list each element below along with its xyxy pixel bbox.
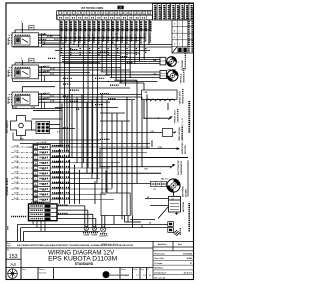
svg-text:0.5 HG 15: 0.5 HG 15 — [116, 32, 118, 42]
company logo emblem — [8, 269, 18, 279]
svg-text:AB 1: AB 1 — [42, 173, 46, 176]
step wires to starter and glow — [114, 79, 137, 81]
wires lower mesh — [33, 109, 62, 111]
wire label pin 13 — [117, 21, 119, 31]
arrow oil pressure — [143, 100, 145, 119]
svg-text:1:1: 1:1 — [126, 275, 129, 277]
battery B1 — [169, 197, 181, 213]
arrow fuel solenoid — [100, 166, 172, 168]
svg-text:TERMINAL BOARD: TERMINAL BOARD — [6, 177, 9, 196]
wire label pin 20 — [149, 21, 151, 31]
svg-text:5: 5 — [78, 13, 79, 15]
battery B1 wires — [145, 198, 169, 200]
svg-text:1N5: 1N5 — [153, 74, 156, 76]
svg-text:0.5 C 15: 0.5 C 15 — [121, 35, 123, 43]
wire from J1 pin 10 — [101, 20, 103, 72]
wire from J1 pin 1 — [59, 20, 61, 147]
svg-text:87: 87 — [190, 263, 192, 265]
svg-text:1 N5: 1 N5 — [13, 107, 17, 109]
europequipment logo — [103, 271, 110, 278]
svg-text:RELAY: RELAY — [7, 70, 10, 77]
wire label pin 9 — [98, 21, 100, 31]
wire label pin 5 — [79, 21, 81, 31]
svg-text:0.5 A 15: 0.5 A 15 — [129, 34, 132, 42]
alternator G1 — [167, 57, 177, 67]
svg-text:10: 10 — [35, 195, 37, 197]
wire label pin 1 — [60, 21, 62, 31]
wires relay K2 to right — [39, 66, 121, 68]
svg-text:Sost. il dis.:: Sost. il dis.: — [155, 257, 165, 260]
wire from J1 pin 7 — [87, 20, 89, 168]
relay K1 link verticals — [41, 35, 43, 47]
svg-text:AVVIAM.: AVVIAM. — [185, 188, 188, 197]
terminal X1 pin 11 — [34, 198, 38, 202]
indicator lamp H2 — [92, 214, 94, 226]
svg-text:1: 1 — [59, 13, 60, 15]
terminal X1 pin 4 — [34, 161, 38, 165]
wires to alternator connector — [62, 57, 160, 59]
svg-text:1.5 N: 1.5 N — [14, 177, 19, 179]
svg-text:WIRING DIAGRAM 12V: WIRING DIAGRAM 12V — [48, 250, 114, 256]
svg-text:5: 5 — [178, 62, 179, 64]
wires key switch to right — [32, 118, 63, 120]
wires relay K1 to right — [39, 34, 61, 36]
wire bus under relay K3 — [13, 108, 63, 110]
drawing border frame — [6, 3, 194, 280]
legend diagonal mark and dark cells — [172, 47, 177, 53]
svg-text:0.5 G 15: 0.5 G 15 — [69, 36, 71, 45]
svg-text:1 N5: 1 N5 — [158, 147, 162, 149]
starter motor M1 connector — [151, 181, 167, 186]
terminal X1 pin 6 — [34, 172, 38, 176]
wire from J1 pin 8 — [92, 20, 94, 173]
wire from J1 pin 20 — [148, 20, 150, 45]
svg-text:1.95: 1.95 — [144, 169, 148, 171]
svg-text:1 15: 1 15 — [57, 132, 61, 134]
terminal X1 pin 7 — [34, 177, 38, 181]
svg-text:legge: legge — [7, 245, 11, 247]
svg-text:1.5 N: 1.5 N — [14, 145, 19, 147]
wire from J1 pin 9 — [96, 20, 98, 179]
svg-text:MOTORE: MOTORE — [185, 145, 187, 154]
connector X2 pin boxes — [45, 205, 51, 208]
terminal X1 pin 8 — [34, 182, 38, 186]
svg-text:0.5 M 15: 0.5 M 15 — [88, 33, 90, 42]
extra mesh lines — [55, 107, 118, 109]
svg-text:1 N5: 1 N5 — [144, 92, 148, 94]
svg-text:1: 1 — [35, 147, 36, 149]
svg-text:16: 16 — [129, 13, 131, 15]
svg-text:AB 1: AB 1 — [42, 146, 46, 149]
svg-text:AB 1: AB 1 — [42, 183, 46, 186]
wire label pin 6 — [84, 21, 86, 31]
wires right of X1 with labels — [50, 146, 150, 148]
connector J1 body — [57, 10, 153, 20]
wire from J1 pin 2 — [64, 20, 66, 153]
wires panel to right — [124, 216, 126, 223]
svg-text:7: 7 — [87, 13, 88, 15]
svg-text:20: 20 — [148, 13, 150, 15]
svg-text:12: 12 — [110, 13, 112, 15]
svg-text:Emesso:: Emesso: — [39, 269, 46, 271]
svg-text:19: 19 — [143, 13, 145, 15]
svg-text:Tav.: Tav. — [7, 250, 10, 252]
wire label pin 19 — [145, 21, 147, 31]
svg-text:1.5: 1.5 — [153, 189, 156, 191]
svg-text:25: 25 — [149, 223, 151, 225]
svg-text:ARRESTO: ARRESTO — [181, 144, 184, 154]
wires connector X2 to right — [57, 205, 85, 207]
svg-text:PRESS. OLIO: PRESS. OLIO — [175, 110, 177, 123]
svg-text:N.8/99: N.8/99 — [187, 258, 192, 260]
wire label pin 2 — [65, 21, 67, 31]
glow plugs R1 box — [142, 90, 178, 100]
svg-text:CANDELETTE: CANDELETTE — [179, 90, 182, 104]
revision table — [152, 241, 154, 279]
alternator G1 connector — [160, 57, 166, 65]
X2 bottom stubs — [32, 221, 34, 225]
svg-text:RELAY: RELAY — [7, 38, 10, 45]
svg-text:0.5 C: 0.5 C — [50, 95, 55, 97]
wire from J1 pin 13 — [115, 20, 117, 80]
svg-text:TEMP. ACQUA: TEMP. ACQUA — [178, 127, 181, 141]
terminal X1 pin 3 — [34, 156, 38, 160]
svg-text:Dis. sost. da:: Dis. sost. da: — [155, 276, 167, 279]
wire inline labels (smudges) — [63, 77, 72, 79]
svg-text:0.5 M: 0.5 M — [50, 68, 55, 70]
wire label pin 16 — [131, 21, 133, 31]
svg-text:0.5 RG 15: 0.5 RG 15 — [125, 34, 127, 44]
terminal X1 pin 1 — [34, 145, 38, 149]
wire label pin 7 — [89, 21, 91, 31]
svg-text:0.5 G: 0.5 G — [54, 39, 59, 41]
wire label pin 15 — [126, 21, 128, 31]
junction dots — [69, 46, 70, 47]
svg-text:0.5 RV 15: 0.5 RV 15 — [149, 33, 151, 43]
wire X1 row3 to battery — [187, 160, 189, 196]
svg-text:0.5 R 15: 0.5 R 15 — [65, 35, 67, 43]
title block bottom row cells — [20, 268, 22, 280]
legend table header row — [153, 4, 194, 20]
svg-text:0.5 N 15: 0.5 N 15 — [60, 34, 62, 42]
svg-text:4 70: 4 70 — [20, 137, 24, 140]
svg-text:BATTERIA: BATTERIA — [182, 201, 185, 212]
wire from J1 pin 12 — [110, 20, 112, 78]
wire bus under relay K1 — [13, 46, 172, 48]
svg-text:21/07/2004: 21/07/2004 — [183, 252, 192, 255]
svg-text:12V3W: 12V3W — [83, 234, 89, 236]
svg-text:AVVIAMENTO: AVVIAMENTO — [191, 6, 194, 19]
svg-text:0.5 GR 15: 0.5 GR 15 — [135, 33, 137, 43]
svg-text:1.5 N: 1.5 N — [14, 193, 19, 195]
label TAV left of X2 — [11, 216, 27, 218]
svg-text:AB 1: AB 1 — [42, 162, 46, 165]
vertical wires lower area — [61, 104, 63, 148]
svg-text:1.5 N: 1.5 N — [14, 161, 19, 163]
svg-text:Fog.: Fog. — [141, 269, 145, 271]
arrow engine stop — [100, 148, 179, 150]
wire label pin 18 — [140, 21, 142, 31]
svg-text:0.5 S 15: 0.5 S 15 — [107, 35, 109, 43]
motor M2 connector — [160, 71, 167, 79]
svg-text:11: 11 — [106, 13, 108, 15]
wire from J1 pin 15 — [124, 20, 126, 86]
svg-text:9: 9 — [35, 189, 36, 191]
relay K1 box — [12, 33, 39, 47]
svg-text:0.5 A: 0.5 A — [50, 100, 55, 103]
connector J1 pin boxes with numbers — [58, 11, 61, 14]
wire label pin 11 — [107, 21, 109, 31]
vertical links right of X1 — [99, 150, 101, 167]
vertical wires right of X1 down to X2 area — [59, 150, 61, 204]
svg-text:15: 15 — [124, 13, 126, 15]
svg-text:1.5 N: 1.5 N — [14, 156, 19, 158]
svg-text:0.5 RN: 0.5 RN — [47, 36, 53, 38]
svg-text:CARBURANTE: CARBURANTE — [180, 160, 183, 175]
svg-text:1:1: 1:1 — [136, 275, 139, 277]
svg-text:25: 25 — [147, 197, 149, 199]
starter motor M1 wire — [60, 183, 151, 185]
wire label pin 8 — [93, 21, 95, 31]
battery B1 plus terminal — [175, 212, 178, 214]
starter motor M1 — [167, 179, 180, 192]
wire from J1 pin 11 — [106, 20, 108, 75]
svg-text:AB 1: AB 1 — [42, 157, 46, 160]
wire label pin 17 — [135, 21, 137, 31]
svg-text:SPIE: SPIE — [8, 225, 10, 230]
svg-text:CLACSON: CLACSON — [99, 235, 108, 238]
key switch S1 cross-shaped body — [11, 116, 32, 136]
svg-text:AB 1: AB 1 — [42, 152, 46, 155]
relay K1 terminal stub and label 6 — [21, 23, 23, 33]
relay K2 link verticals — [41, 67, 43, 81]
svg-text:STANDARD: STANDARD — [75, 262, 94, 266]
svg-text:Modifiche: Modifiche — [158, 244, 166, 246]
svg-text:8: 8 — [35, 184, 36, 186]
svg-text:A4: A4 — [11, 262, 17, 267]
svg-text:10: 10 — [101, 13, 103, 15]
water temp sender box — [100, 132, 162, 134]
motor M2 — [167, 70, 178, 81]
svg-text:6: 6 — [35, 174, 36, 176]
svg-text:0.5 L 15: 0.5 L 15 — [102, 34, 104, 42]
svg-text:AB 1: AB 1 — [42, 199, 46, 202]
svg-text:0.5 B 15: 0.5 B 15 — [79, 35, 81, 43]
legend sub-table — [172, 20, 194, 53]
svg-text:Visto:: Visto: — [22, 268, 27, 271]
svg-text:11: 11 — [35, 200, 37, 202]
svg-text:1.15: 1.15 — [150, 131, 154, 133]
wire under key switch — [13, 139, 100, 141]
svg-text:1N5: 1N5 — [153, 60, 156, 62]
connector X2 body — [29, 204, 58, 221]
terminal X1 pin 9 — [34, 187, 38, 191]
relay K2 terminal stub — [21, 60, 23, 65]
svg-text:KEY SWITCH: KEY SWITCH — [7, 120, 9, 133]
wire from J1 pin 16 — [129, 20, 131, 78]
svg-text:ELETTROSTOP: ELETTROSTOP — [178, 160, 180, 175]
svg-text:N. lucido:: N. lucido: — [155, 263, 164, 265]
svg-text:12V3W: 12V3W — [91, 234, 97, 236]
svg-text:19-07-04: 19-07-04 — [39, 273, 46, 275]
wire from J1 pin 14 — [120, 20, 122, 83]
terminal X1 pin 10 — [34, 193, 38, 197]
svg-text:04: 04 — [149, 275, 151, 277]
svg-text:8: 8 — [92, 13, 93, 15]
svg-text:AB 1: AB 1 — [42, 194, 46, 197]
wire label pin 14 — [121, 21, 123, 31]
terminal X1 pin 5 — [34, 166, 38, 170]
svg-text:EPS_KUBOTA_D1103M_12_60: EPS_KUBOTA_D1103M_12_60 — [181, 118, 184, 145]
svg-text:5: 5 — [35, 168, 36, 170]
lower right margin vertical text — [188, 203, 190, 232]
wire label pin 3 — [70, 21, 72, 31]
relay K3 terminal stub — [21, 87, 23, 92]
svg-text:AB 1: AB 1 — [42, 188, 46, 191]
svg-text:0.5 AB: 0.5 AB — [44, 70, 50, 73]
svg-text:1.5 N: 1.5 N — [14, 182, 19, 184]
wire from J1 pin 19 — [143, 20, 145, 59]
svg-text:1.5 N: 1.5 N — [14, 166, 19, 168]
svg-text:1.5 N: 1.5 N — [14, 187, 19, 189]
wire from J1 pin 4 — [73, 20, 75, 45]
svg-text:25: 25 — [141, 226, 143, 228]
wire key switch down — [20, 136, 22, 141]
svg-text:JST TOYODA CONN.: JST TOYODA CONN. — [81, 7, 104, 10]
glow plug elements — [146, 99, 174, 101]
svg-text:GL.N 12.1: GL.N 12.1 — [184, 273, 192, 275]
connector J1 lower cells — [56, 15, 58, 20]
svg-text:1 N5: 1 N5 — [31, 107, 35, 109]
svg-text:0.5 AB 0.5: 0.5 AB 0.5 — [53, 145, 62, 148]
wire bus middle rows — [55, 50, 150, 52]
svg-text:3: 3 — [35, 158, 36, 160]
glow plugs wire down — [167, 103, 169, 110]
svg-text:0.5 V 15: 0.5 V 15 — [111, 36, 113, 44]
terminal X1 pin 2 — [34, 151, 38, 155]
svg-text:N.B. PRIMA DI EFFETTUARE QUALS: N.B. PRIMA DI EFFETTUARE QUALSIASI INTER… — [17, 244, 133, 247]
svg-text:1.5 N: 1.5 N — [14, 151, 19, 153]
wires relay K3 to right — [39, 93, 142, 95]
svg-text:1.5 C: 1.5 C — [28, 147, 33, 149]
battery B1 plates — [170, 203, 179, 205]
svg-text:AB 1: AB 1 — [42, 167, 46, 170]
svg-text:RELAY: RELAY — [7, 97, 10, 104]
wires below X2 turning down — [18, 224, 168, 226]
svg-text:1/1: 1/1 — [143, 275, 146, 277]
wire label pin 4 — [75, 21, 77, 31]
terminal board X1 body — [33, 144, 50, 202]
title block left column — [20, 248, 22, 280]
connector X2 header label — [31, 202, 44, 204]
wire from J1 pin 3 — [68, 20, 70, 158]
svg-text:14: 14 — [120, 13, 122, 15]
wire from J1 pin 18 — [139, 20, 141, 62]
svg-text:Misura: Misura — [121, 269, 126, 271]
svg-text:18: 18 — [138, 13, 140, 15]
wire bus under relay K2 — [13, 80, 158, 82]
svg-text:17: 17 — [134, 13, 136, 15]
svg-text:7: 7 — [35, 179, 36, 181]
svg-text:VENTOLA: VENTOLA — [180, 73, 183, 83]
svg-text:Modifiche:: Modifiche: — [155, 268, 164, 270]
svg-text:TAV. 1.5: TAV. 1.5 — [161, 178, 168, 181]
svg-text:1.5 N: 1.5 N — [14, 198, 19, 200]
wire from J1 pin 17 — [134, 20, 136, 64]
svg-text:9: 9 — [97, 13, 98, 15]
indicator lamp H1 — [84, 206, 86, 227]
svg-text:4: 4 — [73, 13, 74, 15]
notes row line — [6, 240, 194, 242]
svg-text:MASSA: MASSA — [179, 227, 182, 235]
wires to motor M2 connector — [100, 71, 160, 73]
key switch S1 connector face — [36, 122, 50, 134]
svg-text:Revisione/e:: Revisione/e: — [155, 253, 166, 255]
svg-text:AB 1: AB 1 — [42, 178, 46, 181]
wire label pin 10 — [103, 21, 105, 31]
wires middle right — [60, 87, 130, 89]
relay K1 stub tag box — [29, 25, 34, 30]
svg-text:0.5 AB 15: 0.5 AB 15 — [92, 33, 95, 43]
svg-text:MOTORINO: MOTORINO — [183, 186, 185, 197]
svg-text:13: 13 — [115, 13, 117, 15]
relay K3 box — [12, 92, 39, 106]
svg-text:1.5 N: 1.5 N — [14, 172, 19, 174]
svg-text:0.5 GV 15: 0.5 GV 15 — [83, 35, 85, 45]
svg-text:2: 2 — [64, 13, 65, 15]
svg-text:2: 2 — [35, 153, 36, 155]
svg-text:Distribuzione:: Distribuzione: — [155, 272, 167, 275]
wire from J1 pin 5 — [78, 20, 80, 47]
svg-text:Scala: Scala — [133, 269, 137, 271]
wire label pin 12 — [112, 21, 114, 31]
svg-text:6: 6 — [83, 13, 84, 15]
svg-text:0.5 BR 15: 0.5 BR 15 — [139, 35, 141, 45]
panel P1 outline — [101, 193, 130, 216]
relay K2 stub tag box — [29, 58, 34, 63]
wire bus at 143.4 — [20, 142, 150, 144]
dash-dot wires left of X1 — [12, 146, 34, 148]
horn H3 — [101, 216, 103, 228]
svg-text:0.5 RN 15: 0.5 RN 15 — [74, 32, 76, 42]
wire from J1 pin 6 — [82, 20, 84, 163]
relay K2 box — [12, 65, 39, 79]
svg-text:0.5 Z 15: 0.5 Z 15 — [97, 36, 99, 44]
ground G — [168, 222, 174, 227]
svg-text:3: 3 — [69, 13, 70, 15]
svg-text:0.5 LN 15: 0.5 LN 15 — [144, 32, 146, 42]
wire relay K1 top bus — [15, 29, 150, 31]
relay K3 link verticals — [41, 94, 43, 108]
